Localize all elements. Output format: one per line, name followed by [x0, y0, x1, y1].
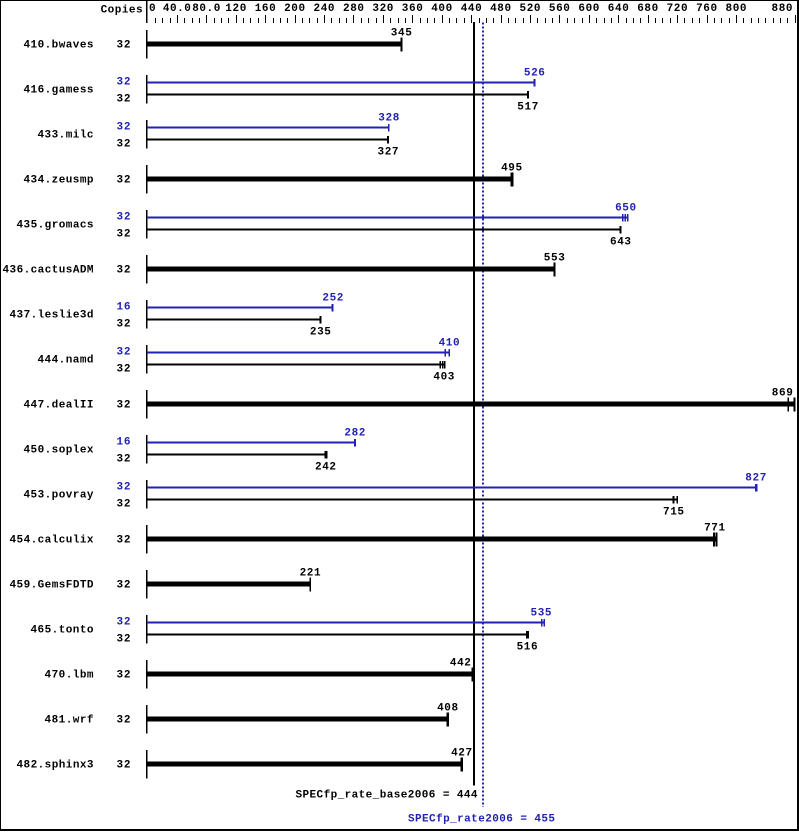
- row bracket 459.GemsFDTD: [146, 570, 147, 598]
- row bracket 470.lbm: [146, 660, 147, 688]
- svg-text:800: 800: [726, 3, 747, 15]
- base bar 433.milc = 327: [147, 139, 388, 141]
- base bar 434.zeusmp = 495: [147, 177, 513, 182]
- run marker at 715.5: [716, 533, 718, 547]
- svg-text:16: 16: [117, 302, 131, 314]
- svg-text:410: 410: [439, 338, 460, 350]
- svg-text:869: 869: [772, 388, 793, 400]
- base bar 416.gamess = 517: [147, 94, 528, 96]
- row bracket 444.namd: [146, 345, 147, 373]
- svg-text:650: 650: [615, 203, 636, 215]
- svg-text:442: 442: [450, 658, 471, 670]
- peak run marker at 626.9: [627, 214, 629, 221]
- svg-text:32: 32: [117, 40, 131, 52]
- svg-text:480: 480: [490, 3, 511, 15]
- benchmark row 459.GemsFDTD: [10, 568, 321, 599]
- peak run marker at 354.0: [354, 439, 356, 446]
- svg-text:SPECfp_rate_base2006 = 444: SPECfp_rate_base2006 = 444: [296, 790, 478, 802]
- base run marker at 619.6: [620, 226, 622, 233]
- svg-text:459.GemsFDTD: 459.GemsFDTD: [10, 580, 94, 592]
- svg-text:360: 360: [402, 3, 423, 15]
- base bar 444.namd = 403: [147, 364, 445, 366]
- svg-text:482.sphinx3: 482.sphinx3: [17, 760, 94, 772]
- svg-text:465.tonto: 465.tonto: [31, 625, 94, 637]
- svg-text:495: 495: [501, 163, 522, 175]
- svg-text:SPECfp_rate2006 = 455: SPECfp_rate2006 = 455: [408, 813, 555, 825]
- run marker at 510.4: [510, 173, 513, 187]
- axis tick marks: [155, 15, 796, 23]
- row bracket 454.calculix: [146, 525, 147, 553]
- svg-text:760: 760: [696, 3, 717, 15]
- svg-text:643: 643: [610, 237, 631, 249]
- svg-text:80.0: 80.0: [192, 3, 220, 15]
- svg-text:120: 120: [225, 3, 246, 15]
- row bracket 437.leslie3d: [146, 300, 147, 328]
- SPECfp_rate2006 reference line (455, dotted): [482, 23, 484, 808]
- run marker at 787.3: [787, 398, 789, 412]
- svg-text:32: 32: [117, 139, 131, 151]
- base bar 436.cactusADM = 553: [147, 267, 555, 272]
- peak run marker at 754.8: [755, 484, 758, 491]
- row bracket 416.gamess: [146, 75, 147, 103]
- row bracket 436.cactusADM: [146, 255, 147, 283]
- svg-text:32: 32: [117, 265, 131, 277]
- svg-text:280: 280: [343, 3, 364, 15]
- base run marker at 387.2: [387, 136, 389, 143]
- row bracket 433.milc: [146, 120, 147, 148]
- run marker at 309.3: [309, 578, 311, 592]
- svg-text:32: 32: [117, 94, 131, 106]
- base run marker at 672.5: [673, 496, 675, 503]
- peak bar 444.namd = 410: [147, 352, 450, 354]
- base bar 437.leslie3d = 235: [147, 319, 321, 321]
- row bracket 481.wrf: [146, 705, 147, 733]
- base run marker at 319.6: [320, 316, 322, 323]
- base bar 481.wrf = 408: [147, 717, 448, 722]
- row bracket 450.soplex: [146, 435, 147, 463]
- row bracket 447.dealII: [146, 390, 147, 418]
- benchmark row 453.povray: [24, 473, 767, 519]
- peak run marker at 540.9: [541, 619, 543, 626]
- run marker at 471.6: [472, 668, 474, 682]
- base bar 482.sphinx3 = 427: [147, 762, 462, 767]
- base run marker at 527.0: [527, 91, 529, 98]
- svg-text:40.0: 40.0: [163, 3, 191, 15]
- svg-text:453.povray: 453.povray: [24, 490, 94, 502]
- benchmark row 454.calculix: [10, 523, 726, 554]
- svg-text:880: 880: [772, 3, 793, 15]
- svg-text:400: 400: [431, 3, 452, 15]
- svg-text:447.dealII: 447.dealII: [24, 400, 94, 412]
- svg-text:32: 32: [117, 347, 131, 359]
- svg-text:520: 520: [520, 3, 541, 15]
- peak bar 437.leslie3d = 252: [147, 307, 333, 309]
- svg-text:408: 408: [437, 703, 458, 715]
- peak run marker at 387.9: [388, 124, 390, 131]
- svg-text:Copies: Copies: [101, 5, 143, 17]
- svg-text:427: 427: [451, 748, 472, 760]
- svg-text:517: 517: [517, 102, 538, 114]
- svg-text:526: 526: [524, 68, 545, 80]
- svg-text:481.wrf: 481.wrf: [45, 715, 94, 727]
- svg-text:32: 32: [117, 454, 131, 466]
- benchmark row 435.gromacs: [17, 203, 637, 249]
- benchmark row 434.zeusmp: [24, 163, 523, 194]
- peak run marker at 331.6: [332, 304, 334, 311]
- benchmark row 470.lbm: [45, 658, 474, 689]
- base bar 447.dealII = 869: [147, 402, 795, 407]
- base run marker at 676.4: [676, 496, 678, 503]
- base bar 465.tonto = 516: [147, 634, 528, 636]
- base run marker at 526.2: [526, 631, 529, 638]
- row bracket 434.zeusmp: [146, 165, 147, 193]
- benchmark row 465.tonto: [31, 608, 552, 654]
- svg-text:221: 221: [300, 568, 321, 580]
- svg-text:32: 32: [117, 212, 131, 224]
- svg-text:715: 715: [663, 507, 684, 519]
- peak bar 453.povray = 827: [147, 487, 757, 489]
- svg-text:32: 32: [117, 617, 131, 629]
- row bracket 465.tonto: [146, 615, 147, 643]
- svg-text:235: 235: [310, 327, 331, 339]
- svg-text:32: 32: [117, 364, 131, 376]
- svg-text:516: 516: [517, 642, 538, 654]
- base bar 454.calculix = 771: [147, 537, 717, 542]
- benchmark row 450.soplex: [24, 428, 366, 474]
- base bar 450.soplex = 242: [147, 454, 327, 456]
- svg-text:827: 827: [745, 473, 766, 485]
- benchmark row 437.leslie3d: [10, 293, 344, 339]
- peak bar 416.gamess = 526: [147, 82, 535, 84]
- benchmark row 436.cactusADM: [3, 253, 566, 284]
- run marker at 460.3: [460, 758, 463, 772]
- svg-text:200: 200: [284, 3, 305, 15]
- svg-text:32: 32: [117, 715, 131, 727]
- svg-text:560: 560: [549, 3, 570, 15]
- axis zero line / copies separator: [146, 0, 147, 23]
- svg-text:435.gromacs: 435.gromacs: [17, 220, 94, 232]
- svg-text:32: 32: [117, 535, 131, 547]
- svg-text:470.lbm: 470.lbm: [45, 670, 94, 682]
- benchmark row 416.gamess: [24, 68, 545, 114]
- svg-text:444.namd: 444.namd: [38, 355, 94, 367]
- row bracket 482.sphinx3: [146, 750, 147, 778]
- svg-text:32: 32: [117, 580, 131, 592]
- run marker at 446.4: [446, 713, 449, 727]
- base bar 459.GemsFDTD = 221: [147, 582, 310, 587]
- svg-text:32: 32: [117, 670, 131, 682]
- svg-text:32: 32: [117, 229, 131, 241]
- svg-text:32: 32: [117, 122, 131, 134]
- run marker at 400.6: [401, 38, 403, 52]
- peak bar 435.gromacs = 650: [147, 217, 628, 219]
- svg-text:32: 32: [117, 319, 131, 331]
- svg-text:640: 640: [608, 3, 629, 15]
- base run marker at 441.9: [442, 361, 444, 368]
- base bar 435.gromacs = 643: [147, 229, 621, 231]
- svg-text:345: 345: [391, 28, 412, 40]
- svg-text:32: 32: [117, 400, 131, 412]
- run marker at 713.0: [713, 533, 715, 547]
- row bracket 435.gromacs: [146, 210, 147, 238]
- svg-text:320: 320: [372, 3, 393, 15]
- svg-text:242: 242: [315, 462, 336, 474]
- run marker at 793.6: [794, 398, 796, 412]
- peak run marker at 621.8: [622, 214, 624, 221]
- benchmark row 481.wrf: [45, 703, 459, 734]
- axis scale labels: [149, 3, 793, 15]
- benchmark row 447.dealII: [24, 388, 796, 419]
- base bar 453.povray = 715: [147, 499, 677, 501]
- svg-text:436.cactusADM: 436.cactusADM: [3, 265, 94, 277]
- svg-text:416.gamess: 416.gamess: [24, 85, 94, 97]
- svg-text:160: 160: [255, 3, 276, 15]
- base run marker at 444.2: [444, 361, 446, 368]
- peak bar 433.milc = 328: [147, 127, 389, 129]
- benchmark row 444.namd: [38, 338, 460, 384]
- svg-text:32: 32: [117, 77, 131, 89]
- SPECfp_rate_base2006 reference line (444): [473, 22, 475, 786]
- svg-text:433.milc: 433.milc: [38, 130, 94, 142]
- benchmark row 433.milc: [38, 113, 400, 159]
- benchmark row 410.bwaves: [24, 28, 413, 59]
- svg-text:403: 403: [433, 372, 454, 384]
- svg-text:410.bwaves: 410.bwaves: [24, 40, 94, 52]
- svg-text:600: 600: [578, 3, 599, 15]
- svg-text:328: 328: [378, 113, 399, 125]
- svg-text:720: 720: [667, 3, 688, 15]
- svg-text:16: 16: [117, 437, 131, 449]
- svg-text:0: 0: [149, 3, 156, 15]
- svg-text:32: 32: [117, 499, 131, 511]
- svg-text:680: 680: [637, 3, 658, 15]
- svg-text:437.leslie3d: 437.leslie3d: [10, 310, 94, 322]
- svg-text:32: 32: [117, 760, 131, 772]
- peak run marker at 444.3: [444, 349, 446, 356]
- base run marker at 324.7: [325, 451, 328, 458]
- base bar 470.lbm = 442: [147, 672, 473, 677]
- peak run marker at 533.6: [534, 79, 536, 86]
- svg-text:535: 535: [531, 608, 552, 620]
- peak bar 465.tonto = 535: [147, 622, 544, 624]
- svg-text:440: 440: [461, 3, 482, 15]
- run marker at 553.4: [553, 263, 555, 277]
- svg-text:553: 553: [544, 253, 565, 265]
- base bar 410.bwaves = 345: [147, 42, 402, 47]
- svg-text:32: 32: [117, 482, 131, 494]
- svg-text:327: 327: [378, 147, 399, 159]
- benchmark row 482.sphinx3: [17, 748, 473, 779]
- svg-text:252: 252: [322, 293, 343, 305]
- svg-text:434.zeusmp: 434.zeusmp: [24, 175, 94, 187]
- peak run marker at 543.3: [543, 619, 545, 626]
- row bracket 410.bwaves: [146, 30, 147, 58]
- svg-text:282: 282: [344, 428, 365, 440]
- row bracket 453.povray: [146, 480, 147, 508]
- svg-text:454.calculix: 454.calculix: [10, 535, 94, 547]
- peak run marker at 448.4: [448, 349, 450, 356]
- peak bar 450.soplex = 282: [147, 442, 355, 444]
- svg-text:450.soplex: 450.soplex: [24, 445, 94, 457]
- svg-text:32: 32: [117, 634, 131, 646]
- peak run marker at 624.4: [624, 214, 626, 221]
- svg-text:32: 32: [117, 175, 131, 187]
- base run marker at 439.7: [440, 361, 442, 368]
- svg-text:240: 240: [314, 3, 335, 15]
- svg-text:771: 771: [704, 523, 725, 535]
